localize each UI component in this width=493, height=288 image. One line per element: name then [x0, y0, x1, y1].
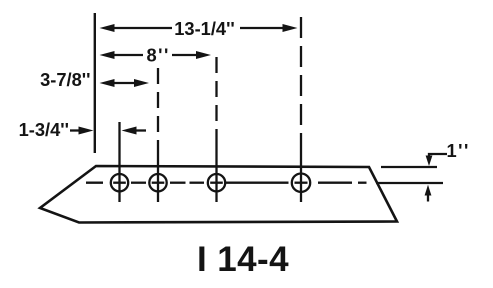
extension line: hole 4 centre (dashed vertical) [300, 17, 302, 142]
svg-text:I 14-4: I 14-4 [197, 240, 289, 279]
svg-text:13-1/4'': 13-1/4'' [174, 18, 235, 39]
dimension 8'' : dimension line right segment [172, 54, 198, 56]
extension line: hole centreline extended right (for 1'' dim) [376, 182, 443, 184]
dimension 8'' : left arrowhead [100, 51, 115, 59]
dimension 3-7/8'' : right arrowhead [134, 79, 149, 87]
extension line: hole 2 centre (dashed vertical) [157, 68, 159, 142]
svg-text:1-3/4'': 1-3/4'' [19, 119, 69, 140]
centreline through holes (dash segments) [86, 182, 103, 184]
blade outline [40, 166, 397, 223]
dimension 13-1/4'' : dimension line left segment [112, 27, 172, 29]
dimension 8'' : right arrowhead [196, 51, 211, 59]
dimension 13-1/4'' : right arrowhead [283, 24, 298, 32]
svg-text:8'': 8'' [147, 45, 170, 66]
hole 1 (circle with cross) [111, 174, 128, 191]
dimension 1-3/4'' : left-pointing arrowhead [122, 127, 137, 135]
svg-text:1'': 1'' [447, 140, 470, 161]
svg-text:3-7/8'': 3-7/8'' [40, 69, 90, 90]
dimension 1-3/4'' : leader arrow shaft (left, pointing right) [70, 129, 82, 131]
hole 2 (circle with cross) [149, 174, 166, 191]
dimension 1-3/4'' : right-pointing arrowhead [79, 127, 94, 135]
dimension 8'' : dimension line left segment [112, 54, 143, 56]
dimension 3-7/8'' : left arrowhead [100, 79, 115, 87]
dimension 1'' : leader bend from label [429, 154, 447, 158]
dimension 13-1/4'' : dimension line right segment [240, 27, 285, 29]
extension line: left datum (blade left edge) [94, 13, 96, 153]
dimension 1-3/4'' : leader arrow shaft (right, pointing left) [133, 129, 146, 131]
dimension 1'' : up arrow tail [427, 193, 429, 202]
extension line: blade top edge extended right (for 1'' dim) [381, 166, 437, 168]
dimension 1'' : up arrowhead [425, 185, 432, 196]
dimension 3-7/8'' : dimension line [112, 82, 137, 84]
dimension 13-1/4'' : left arrowhead [100, 24, 115, 32]
extension line: hole 1 centre (solid vertical) [118, 122, 120, 202]
dimension 1'' : down arrowhead [426, 156, 433, 167]
extension line: hole 3 centre (dashed vertical) [215, 57, 217, 142]
hole 3 (circle with cross) [208, 174, 225, 191]
hole 4 (circle with cross) [292, 174, 310, 192]
